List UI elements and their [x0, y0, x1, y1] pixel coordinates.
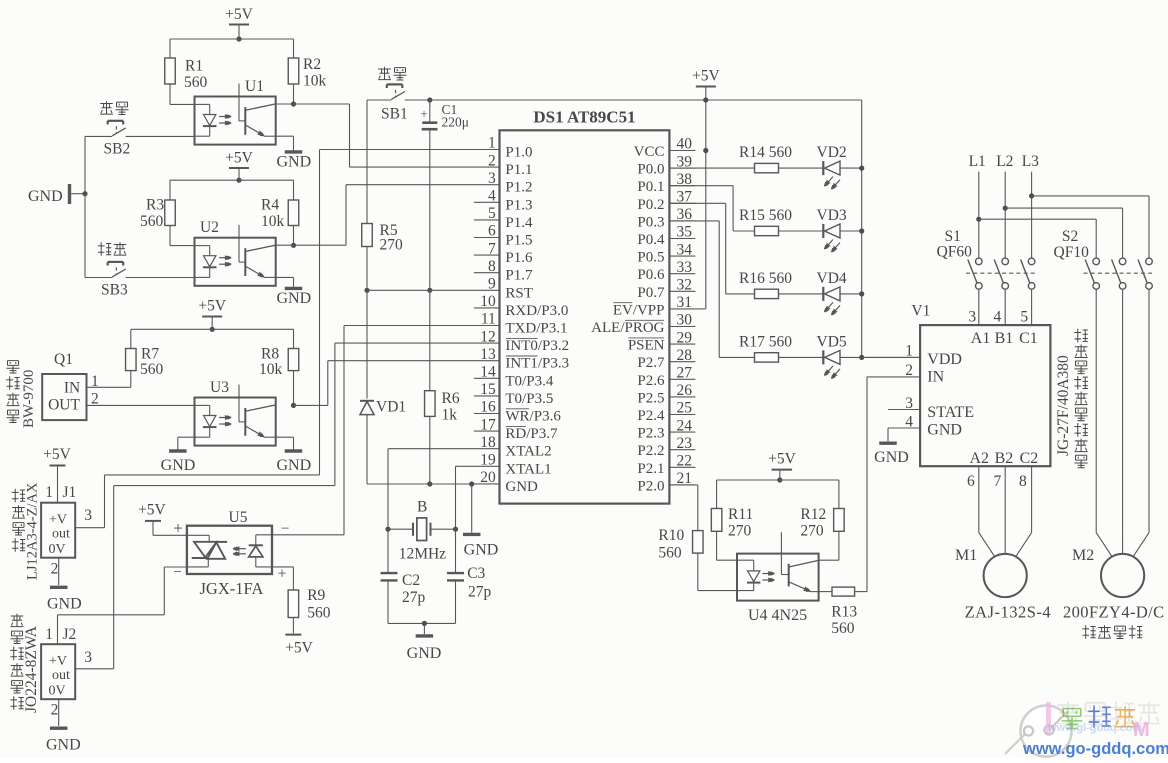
- svg-text:30: 30: [677, 312, 693, 329]
- svg-text:+5V: +5V: [225, 6, 253, 23]
- svg-text:C2: C2: [1020, 450, 1039, 467]
- svg-text:out: out: [52, 527, 70, 542]
- svg-text:L3: L3: [1022, 153, 1039, 170]
- svg-text:2: 2: [905, 362, 913, 379]
- svg-text:0V: 0V: [48, 542, 65, 557]
- svg-text:P1.1: P1.1: [505, 162, 532, 178]
- svg-text:16: 16: [480, 399, 496, 416]
- svg-text:S2: S2: [1062, 228, 1078, 245]
- svg-text:+5V: +5V: [225, 150, 253, 167]
- svg-text:560: 560: [307, 605, 331, 622]
- svg-text:+V: +V: [49, 513, 67, 528]
- svg-text:P2.3: P2.3: [637, 426, 664, 442]
- svg-text:2: 2: [51, 561, 59, 578]
- svg-text:R17 560: R17 560: [739, 333, 792, 350]
- svg-text:VD1: VD1: [376, 399, 406, 416]
- svg-text:560: 560: [184, 74, 208, 91]
- svg-text:SB3: SB3: [101, 282, 128, 299]
- svg-text:P2.1: P2.1: [637, 461, 664, 477]
- svg-text:P2.5: P2.5: [637, 390, 664, 406]
- svg-text:JG-27F/40A380: JG-27F/40A380: [1055, 355, 1072, 456]
- svg-text:+5V: +5V: [692, 68, 720, 85]
- svg-text:www.go-gddq.com: www.go-gddq.com: [1022, 740, 1168, 758]
- svg-text:VCC: VCC: [634, 144, 665, 160]
- svg-text:JO224-8ZWA: JO224-8ZWA: [23, 625, 40, 713]
- svg-text:U5: U5: [229, 509, 248, 526]
- svg-text:10k: 10k: [259, 361, 283, 378]
- svg-text:14: 14: [480, 364, 496, 381]
- svg-text:C3: C3: [467, 565, 485, 582]
- svg-text:40: 40: [677, 136, 693, 153]
- svg-text:+: +: [420, 107, 427, 121]
- svg-text:2: 2: [488, 152, 496, 169]
- svg-text:out: out: [52, 668, 70, 683]
- svg-text:R9: R9: [307, 587, 325, 604]
- svg-text:P0.7: P0.7: [637, 285, 665, 301]
- svg-text:200FZY4-D/C: 200FZY4-D/C: [1063, 603, 1165, 622]
- svg-text:P0.4: P0.4: [637, 232, 665, 248]
- svg-text:6: 6: [488, 223, 496, 240]
- svg-text:R14 560: R14 560: [739, 144, 792, 161]
- svg-text:25: 25: [677, 400, 693, 417]
- svg-text:10k: 10k: [261, 213, 285, 230]
- svg-text:P2.6: P2.6: [637, 373, 665, 389]
- svg-text:GND: GND: [46, 737, 81, 754]
- svg-text:WR/P3.6: WR/P3.6: [505, 409, 561, 425]
- svg-text:560: 560: [831, 620, 855, 637]
- svg-text:R13: R13: [831, 604, 857, 621]
- svg-text:A2: A2: [970, 450, 990, 467]
- svg-text:P1.3: P1.3: [505, 197, 532, 213]
- svg-text:M1: M1: [955, 547, 977, 564]
- svg-text:P1.4: P1.4: [505, 215, 533, 231]
- svg-text:35: 35: [677, 224, 693, 241]
- svg-text:VD3: VD3: [817, 207, 847, 224]
- svg-text:XTAL1: XTAL1: [505, 461, 551, 477]
- svg-text:VD4: VD4: [817, 270, 847, 287]
- svg-text:+5V: +5V: [43, 446, 71, 463]
- svg-text:PSEN: PSEN: [628, 338, 665, 354]
- svg-text:A1: A1: [971, 330, 991, 347]
- svg-text:560: 560: [140, 361, 164, 378]
- svg-text:P0.2: P0.2: [637, 197, 664, 213]
- svg-text:P1.5: P1.5: [505, 233, 532, 249]
- svg-text:19: 19: [480, 452, 496, 469]
- svg-text:P0.1: P0.1: [637, 179, 664, 195]
- svg-text:P1.7: P1.7: [505, 268, 533, 284]
- svg-text:P2.2: P2.2: [637, 443, 664, 459]
- svg-text:J2: J2: [63, 626, 77, 643]
- svg-text:IN: IN: [64, 380, 80, 397]
- svg-text:+5V: +5V: [285, 640, 313, 657]
- svg-text:23: 23: [677, 435, 693, 452]
- svg-text:L1: L1: [969, 153, 986, 170]
- svg-text:0V: 0V: [48, 684, 65, 699]
- svg-text:8: 8: [1019, 473, 1027, 490]
- svg-text:560: 560: [140, 213, 164, 230]
- svg-text:VDD: VDD: [927, 351, 962, 368]
- svg-text:RXD/P3.0: RXD/P3.0: [505, 303, 568, 319]
- svg-text:GND: GND: [407, 645, 442, 662]
- svg-text:V1: V1: [911, 303, 930, 320]
- svg-text:T0/P3.4: T0/P3.4: [505, 373, 553, 389]
- svg-text:P0.0: P0.0: [637, 162, 664, 178]
- svg-text:GND: GND: [505, 479, 538, 495]
- svg-text:P0.5: P0.5: [637, 250, 664, 266]
- svg-text:JGX-1FA: JGX-1FA: [200, 579, 264, 598]
- svg-text:27p: 27p: [402, 589, 426, 606]
- svg-text:270: 270: [800, 523, 824, 540]
- svg-text:GND: GND: [276, 457, 311, 474]
- svg-text:R3: R3: [146, 197, 164, 214]
- svg-text:2: 2: [51, 702, 59, 719]
- svg-text:27p: 27p: [468, 584, 492, 601]
- svg-text:ZAJ-132S-4: ZAJ-132S-4: [965, 603, 1052, 622]
- svg-text:LJ12A3-4-Z/AX: LJ12A3-4-Z/AX: [25, 482, 41, 580]
- svg-text:Q1: Q1: [54, 351, 73, 368]
- svg-text:560: 560: [658, 545, 682, 562]
- svg-text:9: 9: [488, 276, 496, 293]
- svg-text:R6: R6: [442, 390, 460, 407]
- svg-text:3: 3: [84, 507, 92, 524]
- svg-text:GND: GND: [47, 596, 82, 613]
- svg-text:+: +: [278, 566, 287, 583]
- svg-text:B2: B2: [995, 450, 1014, 467]
- svg-text:U4 4N25: U4 4N25: [748, 607, 807, 624]
- svg-text:www.gl-gddq.com: www.gl-gddq.com: [1047, 722, 1143, 734]
- svg-text:TXD/P3.1: TXD/P3.1: [505, 321, 567, 337]
- svg-text:INT1/P3.3: INT1/P3.3: [505, 356, 569, 372]
- svg-text:6: 6: [967, 473, 975, 490]
- svg-text:R15 560: R15 560: [739, 207, 792, 224]
- svg-text:20: 20: [480, 469, 496, 486]
- svg-text:P1.6: P1.6: [505, 250, 533, 266]
- svg-text:U3: U3: [210, 379, 229, 396]
- svg-text:U2: U2: [200, 219, 219, 236]
- svg-text:1: 1: [905, 343, 913, 360]
- svg-text:34: 34: [677, 241, 693, 258]
- svg-text:GND: GND: [161, 457, 196, 474]
- svg-text:13: 13: [480, 346, 496, 363]
- svg-text:1: 1: [488, 135, 496, 152]
- svg-text:10k: 10k: [303, 73, 327, 90]
- svg-text:28: 28: [677, 347, 693, 364]
- svg-text:22: 22: [677, 453, 693, 470]
- svg-text:12MHz: 12MHz: [399, 546, 446, 563]
- svg-text:U1: U1: [245, 78, 264, 95]
- svg-text:DS1 AT89C51: DS1 AT89C51: [533, 108, 635, 127]
- svg-text:B: B: [417, 499, 427, 516]
- svg-text:11: 11: [481, 311, 496, 328]
- svg-text:+5V: +5V: [768, 451, 796, 468]
- svg-text:R12: R12: [800, 506, 826, 523]
- svg-text:OUT: OUT: [48, 397, 80, 414]
- svg-text:P2.4: P2.4: [637, 408, 665, 424]
- svg-text:GND: GND: [927, 422, 962, 439]
- svg-text:1k: 1k: [442, 407, 458, 424]
- svg-text:GND: GND: [464, 542, 499, 559]
- svg-text:L2: L2: [996, 153, 1013, 170]
- svg-text:BW-9700: BW-9700: [21, 370, 37, 428]
- svg-text:J1: J1: [63, 484, 77, 501]
- svg-text:RST: RST: [505, 285, 533, 301]
- svg-text:31: 31: [677, 294, 693, 311]
- svg-text:5: 5: [1020, 309, 1028, 326]
- svg-text:3: 3: [968, 309, 976, 326]
- svg-text:+V: +V: [49, 654, 67, 669]
- svg-text:32: 32: [677, 277, 693, 294]
- svg-text:1: 1: [45, 484, 53, 501]
- svg-text:P1.0: P1.0: [505, 145, 532, 161]
- svg-text:P2.7: P2.7: [637, 355, 665, 371]
- svg-text:+: +: [173, 519, 183, 538]
- svg-text:4: 4: [488, 188, 496, 205]
- svg-text:270: 270: [728, 523, 752, 540]
- svg-text:R7: R7: [141, 346, 159, 363]
- svg-text:29: 29: [677, 329, 693, 346]
- svg-text:SB1: SB1: [381, 106, 408, 123]
- svg-text:1: 1: [91, 373, 99, 390]
- svg-text:12: 12: [480, 328, 496, 345]
- svg-text:15: 15: [480, 381, 496, 398]
- svg-text:270: 270: [380, 237, 404, 254]
- svg-text:+5V: +5V: [198, 298, 226, 315]
- svg-text:SB2: SB2: [104, 141, 131, 158]
- svg-text:10: 10: [480, 293, 496, 310]
- svg-text:C2: C2: [402, 572, 420, 589]
- svg-text:R8: R8: [261, 346, 279, 363]
- svg-text:R11: R11: [728, 506, 753, 523]
- svg-text:1: 1: [45, 626, 53, 643]
- svg-text:7: 7: [488, 240, 496, 257]
- svg-text:GND: GND: [874, 449, 909, 466]
- svg-text:GND: GND: [276, 290, 311, 307]
- svg-text:GND: GND: [28, 188, 63, 205]
- svg-text:P0.3: P0.3: [637, 214, 664, 230]
- svg-text:P1.2: P1.2: [505, 180, 532, 196]
- svg-text:RD/P3.7: RD/P3.7: [505, 426, 558, 442]
- svg-text:R10: R10: [658, 527, 684, 544]
- svg-text:STATE: STATE: [927, 404, 974, 421]
- svg-text:+5V: +5V: [138, 502, 166, 519]
- svg-text:3: 3: [488, 170, 496, 187]
- svg-text:IN: IN: [927, 369, 944, 386]
- svg-text:VD2: VD2: [817, 144, 847, 161]
- svg-text:24: 24: [677, 417, 693, 434]
- svg-text:220μ: 220μ: [442, 115, 470, 130]
- svg-text:17: 17: [480, 416, 496, 433]
- svg-text:P0.6: P0.6: [637, 267, 665, 283]
- svg-text:GND: GND: [276, 154, 311, 171]
- svg-text:P2.0: P2.0: [637, 478, 664, 494]
- svg-text:4: 4: [993, 309, 1001, 326]
- svg-text:18: 18: [480, 434, 496, 451]
- svg-text:QF60: QF60: [937, 244, 973, 261]
- svg-text:INT0/P3.2: INT0/P3.2: [505, 338, 569, 354]
- svg-text:VD5: VD5: [817, 333, 847, 350]
- svg-text:ALE/PROG: ALE/PROG: [591, 320, 665, 336]
- svg-text:C1: C1: [1019, 330, 1038, 347]
- svg-text:5: 5: [488, 205, 496, 222]
- svg-text:T0/P3.5: T0/P3.5: [505, 391, 553, 407]
- svg-text:EV/VPP: EV/VPP: [613, 302, 665, 318]
- svg-text:XTAL2: XTAL2: [505, 444, 551, 460]
- svg-text:QF10: QF10: [1054, 244, 1090, 261]
- svg-text:B1: B1: [995, 330, 1014, 347]
- svg-text:R2: R2: [303, 56, 321, 73]
- svg-text:3: 3: [84, 649, 92, 666]
- svg-text:27: 27: [677, 365, 693, 382]
- svg-text:7: 7: [993, 473, 1001, 490]
- svg-text:33: 33: [677, 259, 693, 276]
- svg-text:S1: S1: [945, 228, 961, 245]
- svg-text:R1: R1: [185, 58, 203, 75]
- svg-text:M2: M2: [1072, 547, 1094, 564]
- svg-text:R4: R4: [261, 197, 279, 214]
- svg-text:26: 26: [677, 382, 693, 399]
- svg-text:R16 560: R16 560: [739, 270, 792, 287]
- svg-text:8: 8: [488, 258, 496, 275]
